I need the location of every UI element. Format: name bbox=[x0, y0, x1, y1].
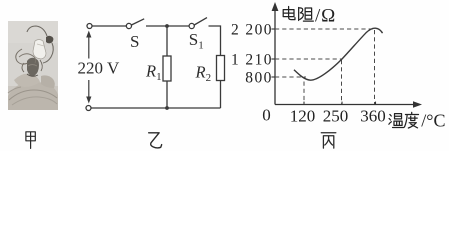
svg-text:S: S bbox=[130, 32, 139, 51]
switch S1 pivot bbox=[189, 23, 194, 28]
terminal bottom-left bbox=[86, 106, 91, 111]
axis tick marks bbox=[271, 29, 375, 105]
wire: S1 to right corner, down to R2 bbox=[209, 26, 221, 56]
wire top: terminal to switch S bbox=[92, 25, 126, 27]
resistor R2 body bbox=[217, 56, 225, 81]
switch S1 blade bbox=[194, 18, 207, 25]
dashed guide lines bbox=[275, 29, 375, 104]
glyph 阻 bbox=[299, 8, 314, 22]
svg-text:2 200: 2 200 bbox=[231, 22, 273, 39]
svg-text:250: 250 bbox=[323, 106, 349, 125]
svg-text:120: 120 bbox=[290, 106, 316, 125]
svg-text:360: 360 bbox=[360, 106, 386, 125]
wire: S to node bbox=[146, 25, 167, 27]
dashed at 250 bbox=[341, 60, 343, 104]
resistance curve bbox=[294, 28, 383, 80]
switch S pivot bbox=[126, 23, 131, 28]
caption 甲 bbox=[26, 132, 35, 149]
dashed 1210 level bbox=[275, 58, 342, 60]
svg-text:/Ω: /Ω bbox=[315, 5, 336, 26]
caption 丙 bbox=[321, 133, 336, 148]
tick y 1210 bbox=[271, 58, 275, 60]
wire: node to switch S1 bbox=[167, 25, 189, 27]
svg-text:/°C: /°C bbox=[421, 111, 445, 131]
dashed at 120 bbox=[303, 82, 305, 105]
svg-text:R1: R1 bbox=[145, 62, 162, 84]
dark plug on cord bbox=[46, 36, 53, 44]
resistor R1 branch wire lower bbox=[166, 81, 168, 108]
x-axis arrowhead bbox=[413, 101, 422, 108]
wire: R2 bottom down to bottom rail bbox=[220, 81, 222, 109]
axis title 电阻/Ω bbox=[283, 6, 313, 21]
dashed at 360 bbox=[374, 30, 376, 104]
thumb / fingers bbox=[14, 74, 40, 87]
white appliance body bbox=[33, 40, 46, 60]
y-axis bbox=[275, 9, 416, 105]
tick x 120 bbox=[303, 102, 305, 105]
switch S blade bbox=[131, 19, 144, 25]
resistor R1 body bbox=[163, 56, 171, 81]
svg-text:220 V: 220 V bbox=[78, 59, 120, 78]
tick y 2200 bbox=[271, 28, 275, 30]
node (junction R1 top) bbox=[165, 24, 169, 28]
dashed 800 level bbox=[275, 76, 306, 78]
node (junction R1 bottom) bbox=[165, 106, 169, 110]
svg-text:1 210: 1 210 bbox=[231, 52, 273, 69]
tick x 250 bbox=[341, 102, 343, 105]
tick y 800 bbox=[271, 76, 275, 78]
gripped dark part bbox=[27, 58, 39, 76]
svg-text:R2: R2 bbox=[195, 63, 212, 85]
svg-text:800: 800 bbox=[245, 70, 272, 87]
y-axis arrowhead bbox=[272, 2, 279, 11]
svg-text:S1: S1 bbox=[189, 30, 204, 52]
resistor R1 branch wire upper bbox=[166, 26, 168, 56]
cord arcs bbox=[27, 26, 47, 36]
dashed 2200 level bbox=[275, 28, 373, 30]
caption 乙 bbox=[149, 133, 162, 148]
glyph 度 bbox=[404, 112, 418, 128]
hand mass bbox=[8, 82, 58, 110]
thin wire loops bbox=[16, 49, 28, 64]
220 V supply annotation arrow bbox=[86, 31, 91, 104]
glyph 电 bbox=[283, 6, 295, 19]
tick x 360 bbox=[375, 102, 377, 105]
glyph 温 bbox=[389, 114, 404, 128]
wire bottom rail bbox=[91, 107, 221, 109]
x-axis bbox=[275, 104, 416, 106]
svg-text:0: 0 bbox=[262, 105, 271, 124]
terminal top-left bbox=[87, 24, 92, 29]
axis title 温度/°C bbox=[389, 112, 419, 128]
photo of appliance (figure 甲) bbox=[8, 21, 58, 110]
